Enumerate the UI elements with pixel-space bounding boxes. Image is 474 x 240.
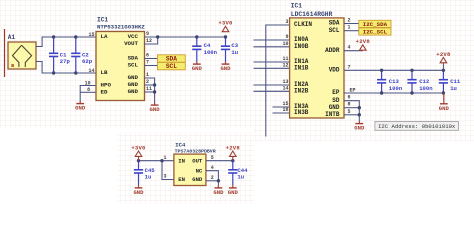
svg-text:GND: GND [220, 65, 231, 72]
svg-text:13: 13 [282, 79, 288, 85]
svg-text:SDA: SDA [329, 20, 340, 27]
svg-text:+2V8: +2V8 [356, 38, 371, 45]
svg-text:2: 2 [146, 79, 149, 85]
svg-text:ED: ED [101, 89, 108, 96]
svg-text:VOUT: VOUT [124, 40, 138, 47]
svg-text:1: 1 [164, 155, 167, 161]
svg-text:I2C_SDA: I2C_SDA [363, 21, 388, 28]
svg-text:CLKIN: CLKIN [294, 21, 312, 28]
svg-text:2: 2 [348, 18, 351, 24]
svg-text:LDC1614RGHR: LDC1614RGHR [291, 11, 333, 18]
svg-text:SCL: SCL [329, 27, 340, 34]
svg-text:SCL: SCL [128, 62, 139, 69]
svg-text:GND: GND [75, 105, 86, 112]
svg-text:IN1B: IN1B [294, 65, 309, 72]
svg-text:9: 9 [146, 31, 149, 37]
svg-text:27p: 27p [60, 58, 71, 65]
svg-text:EP: EP [332, 89, 340, 96]
svg-text:IC1: IC1 [291, 3, 302, 10]
svg-text:100n: 100n [389, 85, 403, 92]
svg-text:EP: EP [350, 88, 356, 94]
svg-text:NC: NC [196, 167, 203, 174]
svg-text:GND: GND [329, 104, 340, 111]
svg-text:VCC: VCC [128, 33, 139, 40]
svg-text:10: 10 [85, 80, 91, 86]
svg-text:GND: GND [150, 106, 161, 113]
svg-text:EN: EN [178, 176, 185, 183]
svg-text:14: 14 [282, 85, 288, 91]
svg-text:GND: GND [354, 125, 365, 132]
svg-text:7: 7 [146, 60, 149, 66]
svg-text:SDA: SDA [166, 56, 177, 63]
svg-text:100n: 100n [204, 49, 218, 56]
svg-text:1u: 1u [231, 49, 238, 56]
svg-text:IC4: IC4 [175, 141, 186, 148]
svg-text:8: 8 [87, 87, 90, 93]
svg-text:15: 15 [88, 32, 94, 38]
svg-text:3: 3 [164, 174, 167, 180]
svg-text:LA: LA [101, 33, 108, 40]
svg-text:IC1: IC1 [97, 17, 108, 24]
svg-text:LB: LB [101, 69, 108, 76]
svg-text:9: 9 [285, 34, 288, 40]
svg-text:1: 1 [348, 25, 351, 31]
svg-text:IN0B: IN0B [294, 43, 309, 50]
svg-text:GND: GND [228, 189, 239, 196]
svg-text:IN2B: IN2B [294, 88, 309, 95]
svg-text:SD: SD [332, 97, 340, 104]
svg-text:NTP53321G03HKZ: NTP53321G03HKZ [97, 24, 145, 31]
svg-text:GND: GND [192, 65, 203, 72]
svg-text:11: 11 [146, 86, 152, 92]
svg-text:8: 8 [348, 102, 351, 108]
svg-text:2: 2 [211, 175, 214, 181]
svg-text:5: 5 [348, 109, 351, 115]
svg-text:+3V0: +3V0 [131, 144, 146, 151]
svg-text:1: 1 [146, 72, 149, 78]
svg-text:GND: GND [133, 189, 144, 196]
svg-text:B: B [11, 63, 14, 69]
svg-text:I2C_SCL: I2C_SCL [363, 29, 388, 36]
svg-text:1u: 1u [237, 173, 244, 180]
svg-text:GND: GND [128, 88, 139, 95]
svg-text:VDD: VDD [329, 67, 340, 74]
svg-text:14: 14 [88, 68, 94, 74]
svg-text:IN: IN [178, 157, 185, 164]
svg-text:I2C Address: 0b0101010x: I2C Address: 0b0101010x [378, 123, 456, 130]
svg-text:GND: GND [128, 81, 139, 88]
svg-text:+2V8: +2V8 [226, 144, 241, 151]
svg-text:100n: 100n [419, 85, 433, 92]
svg-text:GND: GND [439, 105, 450, 112]
svg-text:+2V8: +2V8 [436, 51, 451, 58]
svg-text:GND: GND [213, 189, 224, 196]
svg-text:5: 5 [211, 155, 214, 161]
svg-text:1u: 1u [450, 85, 457, 92]
svg-text:A1: A1 [8, 34, 16, 41]
svg-text:SDA: SDA [128, 55, 139, 62]
svg-text:+3V0: +3V0 [218, 20, 233, 27]
svg-text:12: 12 [146, 38, 152, 44]
svg-text:3: 3 [285, 19, 288, 25]
svg-text:6: 6 [146, 53, 149, 59]
svg-text:16: 16 [282, 107, 288, 113]
svg-text:OUT: OUT [192, 157, 203, 164]
svg-text:11: 11 [282, 56, 288, 62]
svg-text:12: 12 [282, 62, 288, 68]
svg-text:TPS7A0328PDBVR: TPS7A0328PDBVR [175, 148, 216, 154]
svg-text:6: 6 [348, 95, 351, 101]
svg-text:4: 4 [348, 45, 351, 51]
svg-text:INTB: INTB [325, 111, 340, 118]
svg-text:62p: 62p [82, 58, 93, 65]
svg-text:10: 10 [282, 41, 288, 47]
svg-text:7: 7 [348, 64, 351, 70]
svg-text:GND: GND [192, 176, 203, 183]
svg-text:1u: 1u [145, 173, 152, 180]
svg-text:SCL: SCL [166, 63, 177, 70]
svg-text:IN3B: IN3B [294, 109, 309, 116]
svg-text:ADDR: ADDR [325, 47, 340, 54]
svg-text:GND: GND [128, 74, 139, 81]
svg-text:4: 4 [211, 165, 214, 171]
